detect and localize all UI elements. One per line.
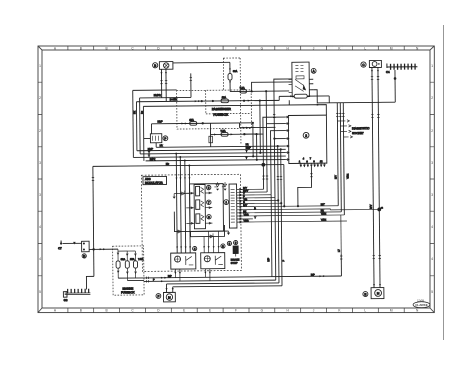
svg-text:F: F <box>157 294 159 298</box>
svg-text:2: 2 <box>305 134 307 138</box>
svg-text:E: E <box>364 292 366 296</box>
junction dot y123 <box>202 122 204 124</box>
title logo bottom right <box>413 299 430 307</box>
engine fusebox internal top link <box>118 250 135 252</box>
svg-text:K: K <box>338 309 341 313</box>
fuse F1 on y91.5 <box>240 87 247 93</box>
junction dot comb drop <box>394 77 397 80</box>
svg-text:5: 5 <box>431 290 433 294</box>
svg-text:10A: 10A <box>222 96 227 99</box>
wire ECU top feed y105.5 <box>143 105 326 117</box>
circled number 7 <box>207 200 211 204</box>
connector arrows y127.7 <box>242 127 248 129</box>
svg-text:G: G <box>261 309 264 313</box>
fuse F4 on y134.3 <box>221 130 229 137</box>
wire riser x267 from y91.5 <box>265 91 267 123</box>
wire riser x192 <box>190 73 192 97</box>
solenoid valve 3 <box>196 214 204 224</box>
svg-text:P: P <box>164 137 166 141</box>
wire stair 4 <box>274 139 286 198</box>
connector arrow on y105.5 <box>317 104 320 106</box>
connector arrows y134.3 <box>214 133 233 135</box>
wire riser x260.6 <box>259 101 262 153</box>
circled number 8 upper <box>227 241 231 245</box>
suppression diode D2 <box>222 182 227 191</box>
svg-text:1: 1 <box>431 64 433 68</box>
diagnostic socket pins <box>337 120 352 139</box>
svg-text:E: E <box>209 46 211 50</box>
wire bottom bus 1 <box>144 276 341 278</box>
frame grid letters top <box>54 46 419 50</box>
wire y127.7 stub <box>239 123 275 128</box>
pump motor M1 <box>371 288 384 299</box>
svg-text:F: F <box>235 309 237 313</box>
node circle beside brake switch <box>163 136 168 141</box>
svg-text:7.5A: 7.5A <box>138 258 144 261</box>
svg-text:B/Y: B/Y <box>334 175 337 179</box>
wire lamp drop 2 <box>165 69 167 101</box>
engine fusebox dashed outline <box>113 246 144 295</box>
pump entry arrows <box>373 284 381 286</box>
wire feed to engine fusebox <box>89 248 118 250</box>
wire x330 drop to y103.7 <box>328 96 330 103</box>
svg-text:2: 2 <box>431 96 433 100</box>
ECU bottom pins <box>300 163 326 167</box>
svg-text:E: E <box>209 309 211 313</box>
svg-text:CLARKE: CLARKE <box>415 303 428 307</box>
riser labels <box>267 257 285 261</box>
svg-text:B: B <box>154 64 156 68</box>
svg-text:B/Y: B/Y <box>243 204 247 207</box>
svg-text:B/P: B/P <box>168 275 172 278</box>
svg-text:1: 1 <box>39 64 41 68</box>
strip pin stubs and arrows <box>237 187 347 223</box>
ignition switch right pins <box>309 79 313 90</box>
svg-text:15A: 15A <box>130 258 135 261</box>
passenger fusebox dashed outline <box>177 90 252 129</box>
solenoid valve 1 <box>196 186 204 196</box>
svg-text:B/Y: B/Y <box>321 203 325 206</box>
wire return pump riser 2 <box>172 287 174 293</box>
ABS modulator label box <box>143 176 167 184</box>
modulator drop C <box>184 160 187 252</box>
diode D4 on y231 <box>178 229 181 234</box>
wire diag riser lower x340.5 <box>340 254 342 276</box>
wire bus line 5 y160 <box>146 160 286 161</box>
connector break riser <box>190 77 192 80</box>
solenoid block inner box <box>190 184 224 232</box>
svg-text:B: B <box>106 46 108 50</box>
wire stair 1 ECU pin1 to strip pin1 <box>263 117 286 189</box>
svg-text:C: C <box>131 309 134 313</box>
relay R2 top pins <box>203 231 220 253</box>
wire ignition feed to riser x274.8 <box>274 79 293 139</box>
svg-text:T: T <box>246 157 248 160</box>
relay R2 bottom drops <box>204 269 211 281</box>
svg-text:1: 1 <box>225 200 227 204</box>
fuse F5 above ECU <box>279 94 329 98</box>
svg-text:FUSEBOX: FUSEBOX <box>121 290 135 294</box>
svg-text:Bk/P: Bk/P <box>157 120 163 123</box>
node circle C top right <box>361 62 366 67</box>
svg-text:L: L <box>364 46 366 50</box>
svg-text:2: 2 <box>39 96 41 100</box>
solenoid left pins <box>186 192 194 224</box>
diode D5 on y236.2 <box>210 233 213 238</box>
connector arrows y123 <box>181 122 187 124</box>
wire riser bottom 2 <box>274 198 277 280</box>
svg-text:7: 7 <box>310 157 312 160</box>
svg-text:4: 4 <box>39 225 41 229</box>
svg-text:MODULATOR: MODULATOR <box>145 181 163 185</box>
ignition switch left pins <box>289 79 293 92</box>
circled number 1 <box>224 200 229 205</box>
junction dots x253.4 <box>252 122 254 124</box>
ABS modulator dashed outline <box>141 174 241 271</box>
scanned page edge line <box>443 25 445 340</box>
ECU pin labels bottom <box>299 157 323 163</box>
connector arrows pump drops <box>371 70 379 72</box>
wire y91.5 feed <box>230 90 289 93</box>
engine fuse 3 <box>133 251 143 278</box>
svg-text:3: 3 <box>39 161 41 165</box>
svg-text:Bk/Pk: Bk/Pk <box>154 93 162 97</box>
wire pump drop 2 top <box>378 67 380 287</box>
connector breaks on risers <box>262 176 282 180</box>
junction dot big y166 <box>261 163 265 167</box>
svg-text:M: M <box>377 291 380 295</box>
brake switch box <box>150 134 161 143</box>
junction dot y100.8 c <box>243 100 245 102</box>
relay R2 box <box>201 253 225 269</box>
passenger fusebox internal dashed step <box>206 90 252 114</box>
junction dot y134.3 <box>243 133 245 135</box>
svg-text:Y/Bk: Y/Bk <box>321 212 327 215</box>
svg-text:SOCKET: SOCKET <box>352 131 364 135</box>
frame tick marks bottom <box>68 308 404 313</box>
node B warning lamp circle top-left <box>153 63 158 68</box>
solenoid valve 2 <box>196 200 204 210</box>
wire diag riser 1 <box>336 103 339 206</box>
wire y134.3 run <box>211 133 264 136</box>
svg-text:J: J <box>313 309 315 313</box>
wire riser bottom 1 <box>270 195 273 277</box>
solenoid valve column box <box>194 184 205 228</box>
wire stair 2 <box>266 124 286 192</box>
frame tick marks top <box>68 46 404 50</box>
ignition switch U2 box <box>292 62 310 97</box>
modulator drop D <box>188 165 191 252</box>
svg-text:5: 5 <box>39 290 41 294</box>
svg-text:L: L <box>364 309 366 313</box>
frame grid numbers left <box>39 64 41 294</box>
connector strip X1 <box>229 184 237 228</box>
wire brake switch left pin <box>143 106 150 161</box>
connector break pump drop 1 low <box>373 256 375 259</box>
frame corner diagonals <box>38 46 434 313</box>
border frame outer <box>38 46 434 313</box>
svg-text:B/Pk: B/Pk <box>150 158 156 161</box>
node circle D below junction box <box>82 254 86 258</box>
inline connector on riser x211 <box>209 136 213 143</box>
ABS warning lamp cluster box <box>159 62 173 70</box>
svg-text:B/Y: B/Y <box>369 204 373 208</box>
wire lamp drop 1 <box>160 69 162 97</box>
dashed outline upper extension <box>223 58 241 145</box>
fuse F3 on y123 <box>189 119 196 126</box>
connector break pump drop 2 upper <box>377 77 379 80</box>
junction dots on bus drops <box>175 152 190 166</box>
svg-text:B: B <box>80 46 82 50</box>
node circle A by ignition <box>311 68 316 73</box>
svg-text:Y/Bk: Y/Bk <box>321 219 327 222</box>
svg-text:Bk: Bk <box>133 110 136 114</box>
bus line labels <box>133 110 169 166</box>
engine fuse 1 <box>116 249 126 278</box>
svg-text:30A: 30A <box>233 70 238 73</box>
svg-text:C4: C4 <box>386 70 390 74</box>
wire ignition feed riser <box>252 82 293 91</box>
svg-text:B/P: B/P <box>311 273 315 276</box>
circled number 3 near relay2 <box>221 244 225 248</box>
connector arrows on y100.8 <box>195 100 201 102</box>
svg-text:L7: L7 <box>338 249 341 252</box>
wire bus line 4 y156.5 <box>133 156 285 157</box>
junction dots x257 <box>255 133 257 135</box>
svg-text:H: H <box>287 309 290 313</box>
connector break ECU drop <box>310 174 312 177</box>
starter junction box <box>82 241 90 252</box>
ignition switch internal markings <box>295 65 306 91</box>
wire internal bottom y231 <box>174 211 228 232</box>
svg-text:D: D <box>157 309 160 313</box>
frame tick marks right <box>430 82 434 276</box>
wire bottom bus 2 <box>144 280 276 281</box>
circled number 5 <box>206 185 210 189</box>
connector break diag riser 1 <box>336 114 338 117</box>
arrows on bottom bus <box>161 275 326 282</box>
return pump entry arrows <box>166 288 174 290</box>
connector break pump drop 2 low <box>379 256 381 259</box>
svg-text:STOP: STOP <box>231 262 238 265</box>
circled number 4 near relay1 <box>193 246 197 250</box>
wire bus y100.8 <box>136 100 279 101</box>
ECU control unit U1 box <box>288 115 326 163</box>
wire comb drop x396 <box>394 70 396 102</box>
wire riser bottom 3 <box>278 146 279 283</box>
wire horizontal y97 to riser <box>140 96 191 98</box>
ground at y231 right <box>227 231 230 235</box>
svg-text:7.5A: 7.5A <box>240 87 245 90</box>
arrows on riser x231 <box>229 69 231 84</box>
connector break x93 <box>92 177 94 180</box>
engine fusebox bottom link 1 <box>118 277 144 279</box>
fuse F2 on y100.8 <box>221 96 228 103</box>
connector break lamp wire 1 <box>160 81 162 84</box>
connector arrow battery wire <box>73 242 76 245</box>
svg-text:4: 4 <box>431 225 433 229</box>
connector break diag riser 2 <box>339 113 341 116</box>
ground stub left entry <box>173 194 176 199</box>
connector break pump drop 2 mid <box>377 115 379 118</box>
svg-text:2: 2 <box>431 129 433 133</box>
connector ticks on bottom bus left <box>146 277 148 283</box>
connector strip pin ticks <box>231 190 235 223</box>
svg-text:G8: G8 <box>64 298 68 302</box>
svg-text:M: M <box>390 46 393 50</box>
arrows on modulator drops <box>175 177 190 179</box>
wire diag riser 2 <box>340 103 341 212</box>
wire x284 drop to strip run <box>283 165 285 207</box>
junction dot y91.5 <box>251 90 253 92</box>
wire x340.5 upper continue <box>340 215 342 254</box>
wire bottom bus 3 <box>166 283 278 284</box>
long wire labels right <box>321 203 327 221</box>
border frame inner <box>42 50 430 308</box>
wire riser x253.4 fusebox to bus <box>252 123 254 156</box>
ECU left pins <box>285 116 289 161</box>
wire internal y236.2 <box>190 225 224 237</box>
return pump motor M2 bottom left <box>163 292 175 302</box>
modulator drop B <box>179 157 182 253</box>
labels on diag risers <box>334 173 350 252</box>
svg-text:B/P: B/P <box>267 257 270 261</box>
junction dots x260.6 <box>259 99 261 101</box>
svg-text:B+: B+ <box>141 110 144 114</box>
junction dot y100.8 b <box>212 100 214 102</box>
connector break pump drop 1 mid <box>371 115 373 118</box>
wire riser bottom 4 <box>281 149 282 285</box>
wire riser x231 <box>229 62 231 91</box>
connector break lamp wire 2 <box>165 81 167 84</box>
junction dot x267 top <box>265 90 267 92</box>
svg-text:A: A <box>54 309 57 313</box>
relay R1 bottom drops <box>174 269 181 281</box>
wire pin8 to junction x379 <box>253 208 380 210</box>
connector comb top right <box>386 63 418 74</box>
frame grid letters bottom <box>54 309 419 313</box>
circled number 6 <box>207 215 211 219</box>
svg-text:M: M <box>168 295 171 299</box>
svg-text:4: 4 <box>303 157 305 160</box>
wire bus line 2 y149.8 <box>137 149 286 150</box>
svg-text:C7: C7 <box>58 246 62 250</box>
wire bus line 1 y146.5 <box>156 146 285 147</box>
wire long bus y166 <box>93 165 284 167</box>
bottom bus labels <box>153 273 315 281</box>
pump relay box top right <box>369 60 381 67</box>
strip pin labels <box>243 187 256 223</box>
battery terminal B+ <box>58 240 62 250</box>
connector arrows on lamp wires <box>160 72 167 74</box>
connector break x340.5 <box>340 256 342 259</box>
wire riser x211 <box>209 123 211 146</box>
svg-text:PASSENGER: PASSENGER <box>212 107 232 111</box>
svg-text:7.5A: 7.5A <box>221 130 226 133</box>
svg-text:Y: Y <box>254 216 256 219</box>
svg-text:B: B <box>80 309 82 313</box>
wire bus line 3 y153 <box>140 153 286 154</box>
wire riser x257 <box>244 134 256 160</box>
connector break pump drop 1 upper <box>371 77 373 80</box>
wire return pump riser 1 <box>165 284 167 292</box>
diode D3 on left entry <box>174 190 189 195</box>
wire ignition to comb run y103.7 <box>313 89 395 103</box>
engine fusebox bottom link 2 <box>127 279 143 281</box>
svg-text:15A: 15A <box>189 119 194 122</box>
wire x290 link <box>288 100 290 105</box>
brake stop connector component <box>231 240 240 264</box>
junction dot y100.8 a <box>201 100 203 102</box>
frame grid numbers right <box>431 64 433 294</box>
ground comb bottom left <box>63 289 90 302</box>
junction dot x274.8 y139 <box>273 138 275 140</box>
connector arrow y100.8 d <box>248 100 251 102</box>
svg-text:Y/Bk: Y/Bk <box>243 219 249 222</box>
svg-text:A: A <box>313 69 315 73</box>
wire x93 jog to ground <box>86 276 94 289</box>
frame tick marks left <box>38 82 42 276</box>
svg-text:2: 2 <box>39 129 41 133</box>
connector break diag riser 3 <box>342 113 344 116</box>
svg-text:N: N <box>416 309 419 313</box>
svg-text:B: B <box>106 309 108 313</box>
wire brake switch to bus <box>155 143 157 147</box>
wire y123 extension right <box>210 122 252 124</box>
svg-text:M: M <box>390 309 393 313</box>
svg-text:F: F <box>235 46 237 50</box>
engine fuse 2 <box>125 251 135 281</box>
svg-text:3: 3 <box>431 193 433 197</box>
svg-text:P: P <box>282 260 285 262</box>
wire pump drop 1 top <box>372 67 374 287</box>
wire lamp box to riser y62.3 <box>173 61 230 64</box>
svg-text:DIAGNOSTIC: DIAGNOSTIC <box>352 126 369 130</box>
svg-text:4: 4 <box>431 257 433 261</box>
modulator drop A <box>175 154 178 253</box>
solenoid right pins <box>205 192 212 224</box>
junction dot x93 y248 <box>92 248 94 250</box>
svg-text:3: 3 <box>39 193 41 197</box>
svg-text:E: E <box>183 309 185 313</box>
svg-text:D: D <box>83 254 85 258</box>
svg-text:Y/Bk: Y/Bk <box>243 213 249 216</box>
wire stair 3 <box>271 131 287 195</box>
fuse F6 on riser x231 <box>228 74 232 81</box>
node circle F by return pump <box>156 294 161 299</box>
wire fuse row y97 <box>278 96 280 100</box>
relay R1 top pin arrows <box>176 246 191 248</box>
bus mid labels <box>246 143 252 160</box>
wire left feeder x93 <box>93 166 94 276</box>
wire diag riser 3 <box>343 103 344 215</box>
svg-text:30A: 30A <box>121 258 126 261</box>
junction dot x379 y210.8 <box>377 208 381 212</box>
svg-text:E: E <box>183 46 185 50</box>
arrows on feed wire <box>100 248 106 250</box>
relay R1 box <box>171 253 196 269</box>
wire ECU bottom drop <box>298 167 312 206</box>
connector break x274.8 <box>273 115 275 118</box>
svg-text:FUSEBOX: FUSEBOX <box>213 113 228 117</box>
svg-text:3: 3 <box>431 161 433 165</box>
wire battery to junction box <box>63 242 82 244</box>
wire lower fuse line y123 <box>151 122 210 125</box>
wire brake switch feed drop <box>150 124 152 134</box>
node circle E by pump <box>363 292 368 297</box>
suppression diode D1 <box>214 182 219 191</box>
svg-text:Y/Bk: Y/Bk <box>346 173 349 179</box>
